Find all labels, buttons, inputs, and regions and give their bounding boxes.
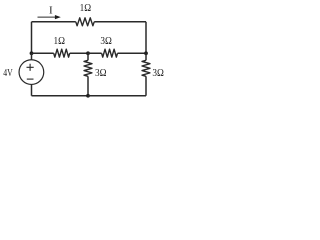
svg-text:3Ω: 3Ω: [95, 68, 107, 79]
voltage source plus sign: [27, 64, 34, 71]
svg-text:4V: 4V: [3, 68, 13, 79]
svg-text:1Ω: 1Ω: [80, 3, 92, 14]
node A junction dot (source top / middle wire): [30, 51, 34, 55]
wire: middle wire segment from R2 to node C: [70, 52, 88, 54]
node D junction dot (bottom wire / middle branch): [86, 94, 90, 98]
wire: source bottom lead down to bottom-left corner: [31, 84, 33, 95]
svg-text:3Ω: 3Ω: [152, 68, 164, 79]
svg-text:3Ω: 3Ω: [100, 36, 112, 47]
resistor 3Ω (right vertical) zigzag: [142, 60, 150, 76]
wire: right branch lower lead (R5 down to bottom-right corner): [145, 76, 147, 95]
wire: middle wire segment from node A to R2: [32, 52, 54, 54]
svg-text:1Ω: 1Ω: [54, 36, 66, 47]
wire: bottom wire right segment: [88, 95, 146, 97]
wire: middle branch lower lead (R4 down to node D): [87, 76, 89, 95]
wire: middle wire segment from R3 to node B: [118, 52, 147, 54]
svg-text:I: I: [49, 5, 53, 17]
wire: middle branch upper lead (node C down to R4): [87, 53, 89, 60]
wire: middle wire segment from node C to R3: [88, 52, 102, 54]
voltage source V1 circle: [19, 60, 44, 85]
resistor 3Ω (middle vertical) zigzag: [84, 60, 92, 76]
current arrow for I: [38, 15, 61, 19]
resistor 1Ω (top) zigzag: [76, 18, 94, 26]
resistor 1Ω (middle) zigzag: [54, 49, 70, 57]
wire: left vertical from node A up to top-left corner: [31, 22, 33, 53]
wire: right vertical upper segment (top-right corner down to node B): [145, 22, 147, 53]
wire: bottom wire left segment: [32, 95, 89, 97]
node B junction dot (middle wire / right branch): [144, 51, 148, 55]
voltage source minus sign: [27, 78, 34, 80]
wire: top wire left segment: [32, 21, 76, 23]
wire: top wire right segment: [94, 21, 146, 23]
wire: right branch upper lead (node B down to R5): [145, 53, 147, 60]
node C junction dot (middle wire / middle 3Ω branch): [86, 51, 90, 55]
resistor 3Ω (middle horizontal) zigzag: [102, 49, 118, 57]
wire: source top lead (node A down to source): [31, 53, 33, 60]
